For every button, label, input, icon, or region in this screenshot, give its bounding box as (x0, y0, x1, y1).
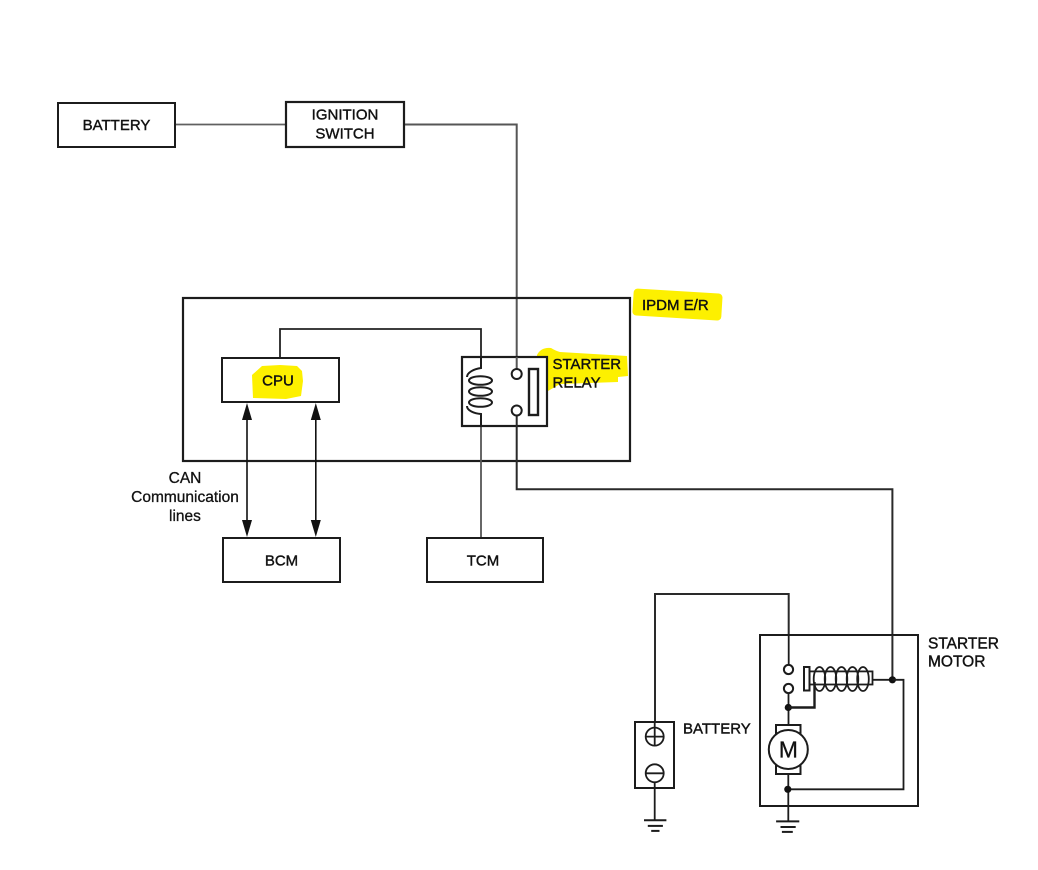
wire stub pin 2 to relay box bottom (516, 416, 518, 428)
svg-text:CAN: CAN (169, 470, 202, 487)
relay contact pin circle (bottom, pin 2) (512, 406, 522, 416)
ground (starter motor) (776, 821, 799, 832)
solenoid coil (starter motor) (804, 667, 873, 691)
highlight swipe over STARTER RELAY label (537, 348, 628, 392)
svg-text:STARTER: STARTER (928, 636, 999, 653)
svg-text:SWITCH: SWITCH (315, 126, 374, 143)
relay contact pin circle (top, pin 1) (512, 369, 522, 379)
wire junction B around to motor bottom (791, 680, 904, 790)
ignition switch box (286, 102, 404, 147)
wire contact to motor (788, 693, 790, 725)
CPU box (222, 358, 339, 402)
CAN communication lines label (131, 470, 239, 525)
wire battery to ground (654, 782, 656, 820)
wire motor to ground (787, 774, 789, 821)
wire solenoid to junction node B (873, 679, 893, 681)
CAN line arrow 2 (CPU to BCM, double headed) (311, 403, 321, 537)
motor M circle (769, 730, 808, 769)
starter relay box (462, 357, 547, 426)
ground (battery) (644, 820, 666, 831)
TCM box (427, 538, 543, 582)
wire from box top to solenoid switch contact (788, 635, 790, 665)
junction node B (relay feed / solenoid / motor loop) (889, 676, 896, 683)
junction node C (motor negative / loop) (784, 786, 791, 793)
svg-text:STARTER: STARTER (553, 356, 622, 373)
battery box (lower, with terminals) (635, 722, 674, 788)
STARTER RELAY label (553, 356, 622, 392)
battery negative terminal (646, 764, 664, 782)
svg-text:MOTOR: MOTOR (928, 654, 985, 671)
svg-text:Communication: Communication (131, 489, 239, 506)
svg-text:RELAY: RELAY (553, 375, 601, 392)
wire stub relay feed into starter motor box (891, 635, 893, 678)
wire battery to starter motor (655, 594, 789, 722)
svg-text:BCM: BCM (265, 553, 298, 570)
svg-text:IPDM E/R: IPDM E/R (642, 297, 709, 314)
relay movable contact bar (529, 369, 538, 415)
highlight blob on CPU (inside box) (252, 365, 303, 399)
highlight swipe over IPDM E/R label (632, 288, 722, 320)
wire stub ignition feed into relay box to pin 1 (516, 357, 518, 370)
svg-text:IGNITION: IGNITION (312, 107, 379, 124)
wire ignition switch to starter relay coil contact (down) (404, 125, 517, 370)
wire relay contact to starter motor solenoid (517, 416, 893, 678)
solenoid switch contact circle (lower) (784, 684, 793, 693)
wire junction to solenoid coil (788, 682, 814, 708)
battery positive terminal (646, 722, 664, 746)
motor brush housing (776, 725, 801, 774)
svg-text:M: M (779, 737, 798, 763)
STARTER MOTOR label (928, 636, 999, 671)
wire relay coil to TCM (480, 414, 482, 538)
svg-text:BATTERY: BATTERY (83, 117, 151, 134)
svg-text:CPU: CPU (262, 373, 294, 390)
highlight swipe over CPU label (251, 365, 303, 399)
starter motor enclosure box (760, 635, 918, 806)
svg-text:BATTERY: BATTERY (683, 721, 751, 738)
battery box (top left) (58, 103, 175, 147)
svg-text:TCM: TCM (467, 553, 500, 570)
solenoid switch contact circle (top) (784, 665, 793, 674)
CAN line arrow 1 (CPU to BCM, double headed) (242, 403, 252, 537)
wire battery to ignition switch (175, 124, 286, 126)
IPDM E/R enclosure box (183, 298, 630, 461)
relay coil (3-loop spring) (467, 357, 492, 426)
wire CPU to relay coil (280, 329, 481, 358)
svg-text:lines: lines (169, 508, 201, 525)
junction node (contact/coil/motor) (785, 704, 792, 711)
BCM box (223, 538, 340, 582)
